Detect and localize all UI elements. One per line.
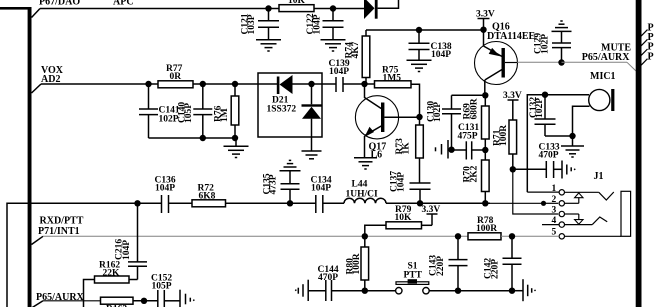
wire C144 to S1: [332, 290, 396, 292]
jack tip contact: [599, 192, 614, 200]
pin circle 4: [559, 222, 564, 227]
ground C144 left: [295, 280, 308, 301]
capacitor C142: [484, 236, 522, 290]
wire APC bus: [40, 8, 279, 10]
pin VOX/AD2 diagonal stub: [32, 84, 42, 93]
junction R76 tap: [232, 81, 238, 87]
junction R70 bottom: [482, 200, 488, 206]
svg-text:473P: 473P: [269, 174, 279, 194]
capacitor C139: [329, 59, 365, 92]
wire AD2 to R77: [41, 83, 158, 85]
ground MIC: [561, 136, 584, 157]
jack body J1: [621, 191, 631, 236]
inductor L44: [344, 180, 386, 204]
ground C135 inverted: [280, 160, 301, 170]
transistor Q16: [475, 22, 562, 96]
junction mic return: [569, 133, 575, 139]
svg-text:475P: 475P: [458, 132, 478, 142]
pin MUTE diagonal stub: [627, 62, 636, 71]
junction C121 tap: [265, 5, 271, 11]
ground C138: [407, 60, 432, 71]
svg-text:P65/AURX: P65/AURX: [582, 52, 631, 63]
wire PTT bus gray: [43, 235, 468, 237]
pin P right 1: [641, 22, 654, 36]
wire audio bus left stub: [7, 203, 162, 307]
junction C132 tap: [542, 92, 548, 98]
svg-text:102P: 102P: [541, 34, 551, 54]
wire R72 to C135 node: [226, 202, 316, 204]
pin P right 3: [641, 42, 654, 56]
capacitor C136: [155, 176, 176, 214]
svg-text:P71/INT1: P71/INT1: [38, 226, 80, 237]
svg-text:470P: 470P: [539, 151, 559, 161]
capacitor C141: [139, 84, 180, 138]
IC U1 left connector bar: [0, 7, 32, 307]
wire R71 node to J1 pin3: [513, 169, 558, 214]
wire C130 to R69 top: [452, 94, 486, 96]
junction C140 tap: [200, 81, 206, 87]
junction J1 pin2 tap: [541, 201, 546, 206]
junction C130 bottom: [448, 147, 454, 153]
wire C141 C140 R76 commons: [149, 137, 237, 139]
junction D21 node: [308, 81, 314, 87]
wire pin4 stub: [542, 224, 559, 226]
pin P right 2: [641, 32, 654, 46]
diode D21b: [302, 84, 322, 151]
ground R76: [224, 138, 249, 158]
svg-text:680R: 680R: [470, 98, 480, 119]
resistor R79: [365, 205, 422, 236]
svg-text:PTT: PTT: [404, 271, 423, 281]
resistor R71: [493, 120, 517, 169]
capacitor C121: [241, 9, 280, 40]
pin P67/DAO diagonal stub: [32, 9, 41, 18]
svg-text:3: 3: [552, 206, 557, 216]
pin circle 2: [559, 201, 564, 206]
wire R77 to D21 box: [193, 83, 277, 85]
wire mic lower terminal: [573, 106, 590, 136]
junction C152 tap: [141, 298, 147, 304]
junction R80 bottom: [362, 288, 368, 294]
svg-text:100R: 100R: [499, 125, 509, 146]
junction Q17 collector node: [361, 81, 367, 87]
ground Q17: [354, 158, 377, 169]
svg-text:P: P: [648, 51, 654, 62]
capacitor C138: [409, 30, 452, 60]
svg-text:APC: APC: [113, 0, 134, 8]
svg-text:105P: 105P: [152, 282, 172, 292]
svg-text:4K7: 4K7: [351, 41, 361, 58]
diode D20: [364, 0, 378, 19]
wire D20 cathode up to edge: [378, 0, 399, 8]
resistor R69: [463, 95, 490, 150]
svg-text:L44: L44: [352, 180, 368, 190]
junction C142 bottom: [509, 288, 515, 294]
svg-text:MIC1: MIC1: [590, 71, 616, 82]
capacitor C143: [429, 236, 468, 290]
capacitor C144: [308, 265, 339, 301]
svg-text:L6: L6: [371, 150, 383, 161]
resistor R70: [463, 150, 490, 203]
svg-text:2K2: 2K2: [470, 165, 480, 182]
capacitor C122: [306, 9, 344, 40]
switch arrow pin3 down: [565, 214, 584, 224]
wire mic to pin1: [527, 191, 559, 193]
resistor R162: [84, 261, 138, 307]
resistor R77: [158, 64, 193, 88]
pin RXD/PTT diagonal stub: [32, 236, 44, 244]
svg-text:104P: 104P: [122, 240, 132, 260]
junction C138 tap: [416, 27, 422, 33]
wire L44 to R70 node: [386, 202, 490, 204]
resistor R73: [395, 117, 423, 183]
svg-text:1K: 1K: [402, 142, 412, 155]
wire R74 to 3.3V rail: [366, 29, 484, 31]
svg-text:103P: 103P: [247, 14, 257, 34]
junction C143 bottom: [455, 288, 461, 294]
switch arrow pin2 up: [565, 193, 584, 203]
svg-text:220P: 220P: [491, 259, 501, 279]
capacitor C137: [390, 171, 431, 204]
ground C129 inverted: [552, 21, 572, 31]
ground D21: [302, 151, 322, 159]
capacitor C130: [427, 95, 462, 149]
transistor Q17: [355, 84, 419, 161]
ground C133 right: [562, 161, 575, 179]
pin P right 4: [641, 51, 654, 65]
wire R75 left: [365, 83, 375, 85]
svg-text:104P: 104P: [397, 172, 407, 192]
capacitor C131: [452, 123, 486, 160]
junction C135 tap: [287, 200, 293, 206]
junction C129 tap: [558, 59, 564, 65]
wire AURX bus: [43, 300, 101, 302]
pin circle 1: [559, 190, 564, 195]
junction Q17 base node: [416, 114, 422, 120]
junction R69 top: [482, 92, 488, 98]
svg-text:1SS372: 1SS372: [267, 105, 297, 115]
svg-text:102P: 102P: [433, 102, 443, 122]
junction R71 bottom: [510, 166, 516, 172]
wire 10K to D20: [314, 8, 364, 10]
wire C136 to R72: [169, 202, 193, 204]
ground C122: [321, 40, 346, 51]
junction R76 bottom: [232, 135, 238, 141]
box D21 outline: [258, 73, 322, 137]
resistor 10K: [279, 0, 314, 12]
pin circle 5: [559, 234, 564, 239]
svg-text:2: 2: [552, 195, 557, 205]
svg-text:105P: 105P: [184, 103, 194, 123]
svg-text:102P: 102P: [535, 98, 545, 118]
diode D21a: [267, 75, 297, 115]
junction C140 bottom: [200, 135, 206, 141]
junction C141 tap: [145, 81, 151, 87]
wire Q16 base bus gray: [490, 202, 544, 204]
capacitor C140: [178, 84, 213, 138]
switch S1 PTT: [396, 262, 430, 294]
connector right bar: [636, 0, 642, 307]
resistor R74: [345, 30, 370, 84]
svg-text:220P: 220P: [436, 256, 446, 276]
ground C130 left: [436, 140, 452, 159]
power 3.3V R79: [422, 205, 441, 225]
jack ring contact: [565, 217, 608, 225]
capacitor C152: [151, 274, 180, 307]
capacitor C134: [311, 176, 332, 214]
resistor R163: [101, 297, 158, 307]
ground C121: [256, 40, 281, 51]
junction Q16 emitter node: [480, 27, 486, 33]
junction C216 tap: [134, 200, 140, 206]
wire C132 to mic return: [545, 135, 573, 137]
pin circle 3: [559, 211, 564, 216]
resistor R76: [214, 84, 239, 138]
junction C122 tap: [330, 5, 336, 11]
junction C137 tap: [417, 200, 423, 206]
junction C142 tap: [509, 233, 515, 239]
wire MUTE bus: [562, 61, 628, 63]
svg-text:RXD/PTT: RXD/PTT: [40, 216, 84, 227]
capacitor C216: [115, 203, 148, 279]
svg-text:470P: 470P: [318, 273, 338, 283]
svg-text:104P: 104P: [329, 67, 349, 77]
power 3.3V Q16: [476, 10, 495, 30]
wire D21 to C139: [322, 83, 336, 85]
junction R79 R80 node: [362, 233, 368, 239]
svg-text:DTA114EE: DTA114EE: [487, 31, 535, 42]
wire D21a to junction: [293, 83, 323, 85]
wire pin1 to jack tip: [565, 191, 599, 193]
svg-text:104P: 104P: [312, 14, 322, 34]
pin P65/AURX diagonal stub: [32, 301, 44, 307]
junction R70 top: [482, 147, 488, 153]
resistor R72: [192, 184, 226, 207]
resistor R78: [468, 216, 558, 240]
capacitor C133: [513, 143, 562, 179]
svg-text:104P: 104P: [311, 184, 331, 194]
svg-text:102P: 102P: [159, 115, 179, 125]
wire C134 to L44: [323, 202, 344, 204]
svg-text:5: 5: [552, 228, 557, 238]
svg-text:J1: J1: [594, 171, 604, 182]
resistor R75: [375, 66, 420, 118]
ground C152 right: [180, 290, 194, 307]
power 3.3V R71: [503, 91, 522, 120]
junction C143 tap: [455, 233, 461, 239]
svg-text:104P: 104P: [155, 184, 175, 194]
capacitor C129: [534, 31, 572, 62]
ground S1 right: [512, 279, 536, 301]
resistor R80: [346, 236, 369, 290]
wire mic top rail: [527, 95, 589, 192]
wire to J1 pin2: [544, 202, 559, 204]
wire S1 to C143: [429, 290, 512, 292]
capacitor C132: [529, 95, 556, 136]
svg-text:P67/DAO: P67/DAO: [39, 0, 80, 8]
capacitor C135: [262, 171, 299, 204]
svg-text:1M: 1M: [220, 108, 230, 122]
microphone MIC1: [589, 71, 616, 111]
wire pin5 to jack body: [565, 235, 622, 237]
svg-text:104P: 104P: [431, 50, 451, 60]
